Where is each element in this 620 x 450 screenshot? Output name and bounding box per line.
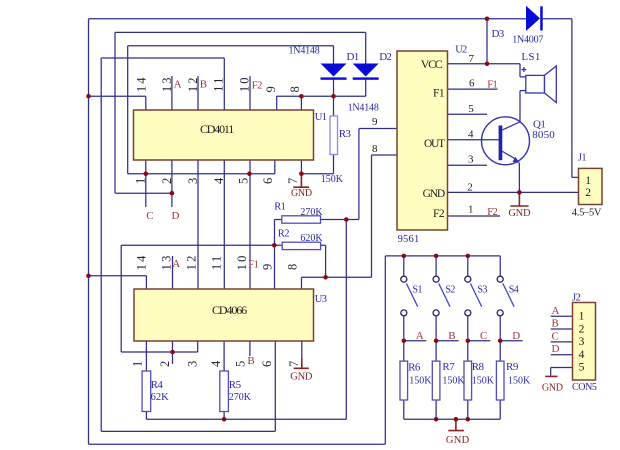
svg-text:150K: 150K [409, 376, 432, 387]
svg-text:5: 5 [233, 359, 247, 367]
svg-text:1: 1 [579, 311, 585, 323]
svg-text:270K: 270K [300, 207, 323, 218]
svg-text:10: 10 [237, 75, 251, 92]
svg-text:D1: D1 [347, 51, 359, 63]
svg-text:1N4148: 1N4148 [289, 45, 320, 56]
svg-text:3: 3 [185, 359, 199, 367]
svg-text:R3: R3 [339, 128, 352, 140]
svg-text:9: 9 [260, 262, 274, 270]
svg-text:14: 14 [134, 253, 148, 270]
svg-text:1: 1 [468, 204, 474, 216]
svg-text:4: 4 [212, 176, 226, 184]
svg-text:J2: J2 [572, 293, 581, 304]
svg-text:U1: U1 [315, 112, 327, 123]
svg-text:150K: 150K [472, 375, 495, 386]
svg-text:10: 10 [235, 253, 249, 270]
svg-text:4: 4 [209, 359, 223, 367]
svg-text:13: 13 [160, 75, 174, 92]
svg-text:5: 5 [236, 176, 250, 184]
svg-text:13: 13 [159, 253, 173, 270]
svg-text:CD4011: CD4011 [200, 122, 234, 136]
svg-text:D: D [552, 343, 560, 355]
svg-text:C: C [146, 210, 153, 222]
svg-text:GND: GND [423, 188, 445, 200]
svg-text:A: A [172, 258, 180, 270]
svg-text:2: 2 [579, 323, 585, 335]
svg-text:5: 5 [579, 362, 585, 374]
svg-text:S3: S3 [477, 285, 487, 296]
svg-text:B: B [448, 330, 455, 342]
svg-text:J1: J1 [578, 152, 586, 163]
svg-text:6: 6 [261, 176, 275, 184]
svg-text:GND: GND [291, 188, 312, 199]
svg-text:R2: R2 [278, 228, 289, 239]
svg-text:C: C [552, 330, 559, 342]
svg-text:R1: R1 [274, 201, 285, 212]
svg-text:D: D [512, 330, 520, 342]
svg-text:U2: U2 [455, 44, 467, 55]
svg-text:2: 2 [467, 182, 473, 194]
svg-text:5: 5 [468, 103, 474, 115]
svg-text:8: 8 [286, 262, 300, 270]
svg-text:150K: 150K [508, 375, 531, 386]
svg-text:1: 1 [585, 175, 591, 187]
svg-text:B: B [200, 79, 207, 91]
svg-text:3: 3 [468, 153, 474, 165]
svg-text:F1: F1 [433, 88, 445, 100]
svg-text:8: 8 [288, 84, 302, 92]
svg-text:R7: R7 [442, 361, 455, 373]
svg-text:3: 3 [579, 336, 585, 348]
svg-text:A: A [174, 79, 182, 91]
svg-text:12: 12 [186, 75, 200, 92]
svg-text:2: 2 [585, 187, 591, 199]
svg-text:2: 2 [158, 359, 172, 367]
svg-text:F2: F2 [487, 207, 497, 218]
svg-text:62K: 62K [151, 392, 170, 403]
svg-text:7: 7 [286, 176, 300, 184]
svg-text:D3: D3 [492, 28, 505, 40]
svg-text:R4: R4 [151, 379, 164, 391]
svg-text:LS1: LS1 [521, 51, 540, 63]
svg-text:B: B [247, 355, 254, 367]
svg-text:14: 14 [135, 75, 149, 92]
svg-text:A: A [552, 305, 560, 317]
svg-text:GND: GND [290, 372, 313, 383]
svg-text:4.5–5V: 4.5–5V [572, 208, 602, 219]
svg-text:R6: R6 [408, 361, 421, 373]
svg-text:OUT: OUT [424, 138, 445, 150]
svg-text:12: 12 [185, 253, 199, 270]
svg-text:R8: R8 [472, 361, 485, 373]
svg-text:U3: U3 [315, 294, 327, 305]
svg-text:4: 4 [579, 349, 585, 361]
svg-text:F1: F1 [487, 79, 497, 90]
svg-text:GND: GND [446, 435, 470, 446]
svg-text:9: 9 [372, 116, 378, 128]
svg-text:D: D [172, 210, 180, 222]
svg-text:2: 2 [160, 176, 174, 184]
svg-text:7: 7 [469, 53, 475, 65]
svg-text:3: 3 [186, 176, 200, 184]
svg-text:R5: R5 [229, 379, 242, 391]
svg-text:R9: R9 [506, 361, 519, 373]
svg-text:B: B [552, 318, 559, 330]
svg-text:8: 8 [372, 143, 378, 155]
svg-text:270K: 270K [229, 392, 252, 403]
svg-text:150K: 150K [442, 375, 465, 386]
svg-text:F1: F1 [248, 259, 258, 270]
svg-text:A: A [416, 330, 424, 342]
svg-text:9: 9 [264, 84, 278, 92]
svg-text:GND: GND [542, 382, 563, 393]
svg-text:S4: S4 [509, 285, 519, 296]
svg-text:F2: F2 [252, 80, 262, 91]
svg-text:6: 6 [469, 78, 475, 90]
svg-text:1N4007: 1N4007 [512, 35, 543, 46]
svg-text:GND: GND [508, 208, 531, 219]
svg-text:F2: F2 [433, 208, 445, 220]
svg-text:S2: S2 [445, 285, 455, 296]
svg-text:1: 1 [131, 359, 145, 367]
svg-text:D2: D2 [379, 51, 391, 63]
svg-text:11: 11 [211, 75, 225, 91]
svg-text:CD4066: CD4066 [212, 303, 247, 317]
svg-text:CON5: CON5 [572, 382, 597, 393]
svg-text:1N4148: 1N4148 [348, 102, 379, 113]
svg-text:620K: 620K [300, 233, 323, 244]
svg-text:S1: S1 [413, 285, 423, 296]
svg-text:4: 4 [468, 128, 474, 140]
svg-text:VCC: VCC [421, 57, 443, 71]
svg-text:8050: 8050 [532, 129, 555, 141]
svg-text:C: C [480, 330, 487, 342]
svg-text:6: 6 [260, 359, 274, 367]
svg-text:11: 11 [210, 254, 224, 270]
svg-text:9561: 9561 [398, 234, 420, 245]
svg-text:7: 7 [287, 359, 301, 367]
svg-text:1: 1 [133, 176, 147, 184]
svg-text:150K: 150K [321, 174, 344, 185]
